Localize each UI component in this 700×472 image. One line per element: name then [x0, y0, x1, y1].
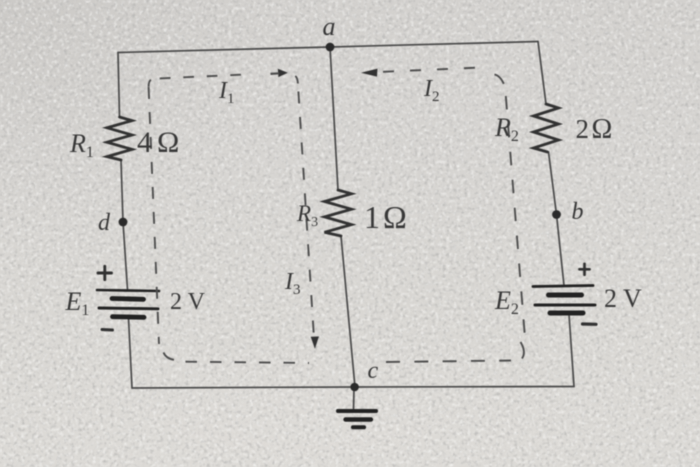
svg-text:b: b [572, 199, 584, 225]
svg-text:2 V: 2 V [170, 289, 206, 315]
svg-text:1: 1 [364, 199, 380, 235]
svg-text:a: a [323, 12, 336, 41]
svg-text:2: 2 [576, 114, 590, 144]
svg-text:Ω: Ω [592, 114, 613, 145]
svg-text:d: d [98, 210, 111, 236]
svg-text:c: c [368, 358, 379, 384]
svg-text:4: 4 [137, 126, 152, 159]
svg-text:2 V: 2 V [604, 284, 642, 313]
svg-text:Ω: Ω [157, 126, 179, 159]
svg-text:Ω: Ω [383, 199, 407, 235]
